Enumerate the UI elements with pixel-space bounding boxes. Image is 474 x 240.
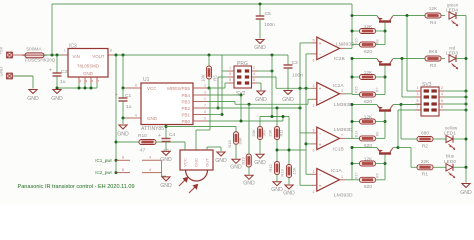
svg-text:12K: 12K [429,6,438,12]
svg-text:7: 7 [341,44,343,48]
svg-text:+: + [115,93,118,99]
svg-text:R10: R10 [138,133,147,139]
svg-text:R9: R9 [262,130,267,136]
svg-text:PB4: PB4 [181,93,190,98]
svg-text:6K8: 6K8 [429,49,438,55]
svg-text:2: 2 [441,86,443,90]
svg-text:IC3: IC3 [69,43,77,49]
svg-text:1: 1 [204,84,206,88]
svg-text:LM393D: LM393D [334,127,353,133]
svg-text:620: 620 [364,49,372,55]
svg-text:OUT: OUT [205,158,210,167]
svg-text:47: 47 [140,147,146,153]
svg-text:R2: R2 [422,143,428,149]
svg-text:LM393D: LM393D [334,192,353,198]
svg-text:PB2: PB2 [181,106,190,111]
svg-text:500MA: 500MA [26,47,42,53]
svg-text:4: 4 [441,92,443,96]
svg-text:VIN: VIN [73,54,80,59]
svg-text:100n: 100n [264,22,275,28]
svg-text:GND: GND [0,67,4,77]
svg-text:GND: GND [254,45,266,51]
svg-text:5: 5 [204,117,206,121]
svg-text:R8: R8 [376,39,380,44]
svg-text:4: 4 [253,72,255,76]
svg-text:12K: 12K [364,157,373,163]
svg-text:GND: GND [27,96,39,102]
svg-text:R9: R9 [376,173,380,178]
svg-text:2: 2 [204,97,206,101]
svg-text:R14: R14 [355,131,359,138]
svg-text:R16: R16 [355,38,359,45]
svg-text:GND: GND [230,165,242,171]
svg-text:GND: GND [255,97,267,103]
svg-text:R7: R7 [376,87,380,92]
svg-text:12K: 12K [364,70,373,76]
svg-text:1u: 1u [126,104,132,110]
svg-text:+: + [319,42,322,47]
svg-text:MRES/PB5: MRES/PB5 [167,86,190,91]
svg-text:R11: R11 [279,129,284,137]
svg-text:78L05SMD: 78L05SMD [77,63,99,68]
svg-text:6: 6 [441,99,443,103]
svg-text:R12: R12 [268,164,273,172]
svg-text:5: 5 [229,78,231,82]
svg-text:8: 8 [122,156,124,160]
svg-text:3: 3 [313,170,315,174]
svg-text:GND: GND [160,157,172,163]
svg-text:R5: R5 [213,75,218,81]
svg-text:PB3: PB3 [181,100,190,105]
svg-text:8: 8 [441,105,443,109]
svg-text:15K: 15K [292,167,297,174]
svg-text:3: 3 [204,91,206,95]
svg-text:LM393D: LM393D [334,102,353,108]
svg-text:C4: C4 [169,132,176,138]
svg-text:LED0: LED0 [444,159,456,165]
svg-text:1: 1 [341,175,343,179]
svg-text:6: 6 [313,148,315,152]
svg-text:LED4: LED4 [446,8,458,14]
svg-text:12K: 12K [364,24,373,30]
svg-text:+: + [319,87,322,92]
svg-text:7: 7 [341,134,343,138]
svg-text:R1: R1 [422,172,428,178]
svg-text:GND: GND [243,181,255,187]
svg-text:VCC: VCC [147,86,157,91]
svg-text:22K: 22K [421,159,430,165]
svg-text:PB0: PB0 [181,119,190,124]
svg-text:39K: 39K [238,137,243,144]
svg-text:1: 1 [341,89,343,93]
svg-text:620: 620 [364,184,372,190]
svg-text:GND: GND [254,160,266,166]
svg-text:GND: GND [83,71,93,76]
svg-text:C2: C2 [61,69,68,75]
svg-text:R17: R17 [355,172,359,179]
svg-text:1: 1 [417,86,419,90]
svg-text:GND: GND [147,116,158,121]
svg-text:yellow: yellow [445,126,458,131]
svg-text:GND: GND [194,158,199,167]
svg-text:IC1A: IC1A [331,168,342,174]
svg-text:GND: GND [117,132,129,138]
svg-text:LED1: LED1 [444,131,456,137]
svg-text:8: 8 [135,84,137,88]
svg-text:1: 1 [229,66,231,70]
svg-text:R6: R6 [376,132,380,137]
svg-text:10K: 10K [201,74,206,82]
svg-text:SV3: SV3 [422,82,432,88]
svg-text:3: 3 [313,84,315,88]
svg-text:2: 2 [253,66,255,70]
svg-text:IC2_pwr: IC2_pwr [95,170,112,175]
svg-text:GND: GND [283,191,295,197]
svg-text:+: + [49,68,52,74]
svg-text:FUSESHK20Q: FUSESHK20Q [25,58,56,63]
svg-text:+: + [319,184,322,189]
svg-text:4: 4 [135,114,137,118]
svg-text:GND: GND [282,97,294,103]
svg-text:+: + [319,143,322,148]
svg-text:Panasonic IR transistor contro: Panasonic IR transistor control - EH 202… [18,184,135,190]
svg-text:5: 5 [313,39,315,43]
svg-text:R3: R3 [430,63,436,69]
svg-text:3: 3 [417,92,419,96]
svg-text:ATTINY85: ATTINY85 [141,126,164,132]
svg-text:6: 6 [253,78,255,82]
svg-text:red: red [449,45,456,50]
svg-text:blue: blue [446,154,455,159]
svg-text:1: 1 [64,49,66,53]
svg-text:620: 620 [364,99,372,105]
svg-text:GND: GND [460,190,472,196]
svg-text:U1: U1 [143,77,150,83]
svg-text:6: 6 [313,58,315,62]
svg-text:+5V: +5V [0,46,4,54]
svg-text:6: 6 [204,110,206,114]
svg-text:R15: R15 [355,86,359,93]
svg-text:5: 5 [313,129,315,133]
svg-text:IC1_pwr: IC1_pwr [95,158,112,163]
svg-text:2: 2 [313,104,315,108]
svg-text:7: 7 [417,105,419,109]
svg-text:20K: 20K [268,129,273,136]
svg-text:PB1: PB1 [181,113,190,118]
svg-text:green: green [447,2,459,7]
svg-text:20K: 20K [251,129,256,136]
svg-text:C3: C3 [292,60,299,66]
svg-text:5: 5 [417,99,419,103]
svg-text:GND: GND [51,96,63,102]
svg-text:2: 2 [313,190,315,194]
svg-text:VOUT: VOUT [92,54,105,59]
svg-text:100n: 100n [292,72,303,78]
svg-text:R19: R19 [240,157,245,165]
svg-text:IC2B: IC2B [334,56,345,62]
svg-text:IC1B: IC1B [333,146,344,152]
svg-text:3: 3 [229,72,231,76]
svg-text:7: 7 [204,104,206,108]
svg-text:R4: R4 [430,20,436,26]
svg-text:GND: GND [160,183,172,189]
svg-text:C5: C5 [265,11,272,17]
svg-text:LED3: LED3 [446,51,458,57]
svg-text:C1: C1 [125,93,132,99]
svg-text:8: 8 [122,168,124,172]
svg-text:R18: R18 [227,140,232,148]
svg-text:12K: 12K [364,115,373,121]
svg-text:GND: GND [215,158,227,164]
svg-text:PRG: PRG [237,61,248,67]
svg-text:680: 680 [421,131,429,137]
svg-text:VCC: VCC [183,158,188,167]
svg-text:8: 8 [110,49,112,53]
svg-text:1u: 1u [60,79,66,85]
svg-text:IC2A: IC2A [333,83,344,89]
svg-text:R13: R13 [280,169,285,177]
svg-text:+: + [158,133,161,139]
svg-text:4: 4 [149,168,151,172]
svg-text:4: 4 [149,156,151,160]
svg-text:GND: GND [271,187,283,193]
